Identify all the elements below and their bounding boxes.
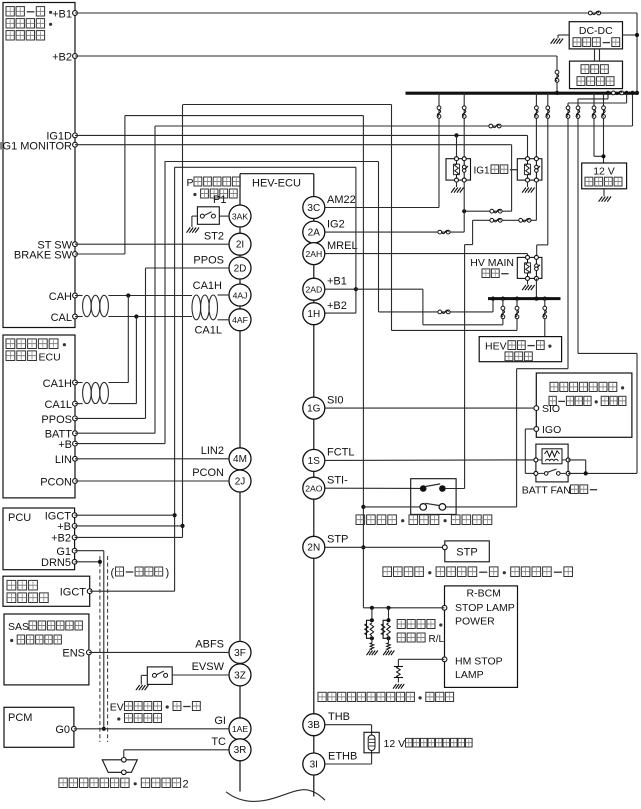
connector drop464 xyxy=(462,106,466,110)
svg-text:+B: +B xyxy=(58,439,72,451)
svg-text:12 V: 12 V xyxy=(593,166,615,178)
label HV battery upper xyxy=(581,65,589,74)
chain182 top xyxy=(183,104,392,106)
svg-text:3F: 3F xyxy=(234,648,246,659)
junction bus1 c xyxy=(630,91,634,95)
pin IGO fan xyxy=(534,427,539,432)
wire line2 drop xyxy=(472,220,474,244)
svg-text:SIO: SIO xyxy=(542,403,560,415)
wire HM stop lamp xyxy=(398,658,444,660)
svg-text:CA1L: CA1L xyxy=(44,399,72,411)
drop 464 relay1 xyxy=(463,93,465,159)
junction DC-DC riser xyxy=(635,33,639,37)
wire HV coil ground xyxy=(527,280,529,284)
junction brake-STP xyxy=(361,545,365,549)
connector drop439 xyxy=(437,106,441,110)
wire fan relay coil return xyxy=(568,459,586,461)
svg-text:POWER: POWER xyxy=(455,616,495,628)
connector on +B2 riser xyxy=(555,70,559,74)
svg-text:THB: THB xyxy=(328,711,350,723)
mini feeder b xyxy=(626,93,628,103)
relay2 switch xyxy=(534,157,538,161)
wire +B2 1H xyxy=(325,312,356,314)
pin STP box xyxy=(442,545,447,550)
wire chain464 low xyxy=(464,245,466,489)
junction bus1 a xyxy=(606,91,610,95)
svg-text:PPOS: PPOS xyxy=(41,414,72,426)
connector 2D xyxy=(229,257,251,279)
connector 2J xyxy=(229,470,251,492)
svg-text:STP: STP xyxy=(456,547,477,559)
svg-text:STI-: STI- xyxy=(327,475,348,487)
svg-text:2J: 2J xyxy=(235,476,246,487)
svg-text:PCM: PCM xyxy=(8,712,32,724)
junction 12V feed xyxy=(601,154,605,158)
DC-DC converter box xyxy=(569,22,622,49)
pin CAL xyxy=(73,314,78,319)
chain391 down xyxy=(391,105,393,331)
wire CA1H parklock stub xyxy=(75,382,83,384)
connector drop536 xyxy=(535,106,539,110)
pin stop lamp power xyxy=(442,605,447,610)
label skid control computer xyxy=(383,567,392,577)
IG1 relay 1 box xyxy=(446,159,471,180)
wire IGCT PCU xyxy=(75,514,175,516)
svg-text:DRN5: DRN5 xyxy=(41,557,71,569)
junction CAL xyxy=(134,314,138,318)
twisted pair 2 xyxy=(192,295,201,320)
svg-text:SAS: SAS xyxy=(8,621,29,633)
svg-text:2I: 2I xyxy=(236,240,244,251)
pin +B2 PCU xyxy=(72,535,77,540)
wire FCTL xyxy=(325,459,534,462)
pin G1 PCU xyxy=(72,548,77,553)
P position switch P1 xyxy=(197,207,219,225)
IG1 relay 2 box xyxy=(517,159,542,180)
connector 2A xyxy=(303,221,325,243)
wire stop lamp power xyxy=(363,607,444,609)
junction DRN5 shield xyxy=(98,560,102,564)
relay1 switch xyxy=(462,157,466,161)
wire +B1 chain down xyxy=(422,289,424,325)
wire 548 jog xyxy=(537,244,548,246)
label parking lock ECU xyxy=(6,339,15,349)
PCU box xyxy=(3,508,75,570)
pin +B1 xyxy=(73,11,78,16)
pin DRN5 PCU xyxy=(72,559,77,564)
svg-text:(: ( xyxy=(111,567,115,579)
svg-text:CA1L: CA1L xyxy=(194,325,222,337)
chain165 top xyxy=(165,161,379,163)
connector on bus1 xyxy=(612,91,616,95)
connector 2AD xyxy=(303,278,325,300)
pin IG1 MONITOR xyxy=(73,142,78,147)
svg-text:AM22: AM22 xyxy=(327,194,356,206)
wire 12V ground xyxy=(603,189,605,196)
pin BATT parklock xyxy=(73,431,78,436)
svg-text:P: P xyxy=(187,177,194,189)
junction IG1D relay1 xyxy=(454,133,458,137)
svg-text:R/L: R/L xyxy=(429,634,445,645)
pin IGCT PCU xyxy=(72,513,77,518)
wire SI0 xyxy=(325,407,534,409)
wire CAL drop xyxy=(135,317,137,404)
svg-text:STOP LAMP: STOP LAMP xyxy=(455,602,515,614)
svg-text:EVSW: EVSW xyxy=(192,661,225,673)
wire IG2 xyxy=(325,231,464,233)
wire +B2 riser xyxy=(556,56,558,93)
svg-text:1G: 1G xyxy=(307,404,321,415)
wire lamp R drop xyxy=(371,608,373,621)
drop 439 AM22 xyxy=(438,93,440,208)
connector 2AO xyxy=(303,477,325,499)
chain174 down xyxy=(174,167,176,591)
thermistor xyxy=(368,735,375,751)
battery temp sensor box xyxy=(364,732,379,753)
svg-text:SI0: SI0 xyxy=(327,395,344,407)
chain378 down xyxy=(378,162,380,312)
ground P1 xyxy=(187,228,191,233)
bus2 xyxy=(488,297,561,300)
wire line2 xyxy=(473,219,537,221)
fan relay coil xyxy=(534,458,538,462)
wire CA1L parklock stub xyxy=(75,403,83,405)
svg-text:HV MAIN: HV MAIN xyxy=(470,257,514,269)
svg-text:+B1: +B1 xyxy=(52,9,72,21)
stop lamp R xyxy=(370,618,374,622)
wire CAL mid xyxy=(108,316,192,318)
wire P1 to ground xyxy=(192,215,198,217)
svg-text:IG1: IG1 xyxy=(474,166,491,177)
svg-text:ECU: ECU xyxy=(39,352,61,364)
wire 568 to switch chain xyxy=(517,368,568,370)
ground stop lamp L xyxy=(383,651,386,656)
drop 568 xyxy=(567,103,569,369)
wire stop switch lower right xyxy=(446,506,517,508)
svg-text:P1: P1 xyxy=(213,194,226,206)
wire G0 to 1AE xyxy=(74,728,229,730)
connector 3B xyxy=(303,714,325,736)
svg-text:): ) xyxy=(166,567,170,579)
junction bus2 riser xyxy=(491,297,495,301)
HEV water pump box xyxy=(479,337,561,362)
wire lineA riser xyxy=(632,93,634,126)
connector on IG2 xyxy=(438,230,442,234)
connector 3AK xyxy=(229,205,251,227)
wire relay2 out xyxy=(535,180,537,220)
connector on 378 wire xyxy=(438,310,442,314)
connector 3C xyxy=(303,197,325,219)
connector 1G xyxy=(303,397,325,419)
wire +B1 right riser xyxy=(636,13,638,93)
svg-text:3AK: 3AK xyxy=(232,211,249,221)
svg-text:2: 2 xyxy=(183,779,189,791)
svg-text:HM STOP: HM STOP xyxy=(455,656,503,668)
wire G1 shielded xyxy=(75,550,104,552)
pin IGCT HV battery xyxy=(87,589,92,594)
connector 3R xyxy=(229,739,251,761)
svg-text:BATT FAN: BATT FAN xyxy=(522,485,571,497)
junction bus1 +B2 xyxy=(555,91,559,95)
connector line2 a xyxy=(490,218,494,222)
svg-text:TC: TC xyxy=(211,736,226,748)
connector tap1 xyxy=(501,306,505,310)
ground relay1 xyxy=(451,188,455,193)
connector 1S xyxy=(303,449,325,471)
fan relay switch xyxy=(534,471,538,475)
svg-text:ABFS: ABFS xyxy=(195,639,224,651)
svg-text:CA1H: CA1H xyxy=(193,280,222,292)
BATT FAN relay box xyxy=(536,444,568,482)
junction bus2 pump xyxy=(543,297,547,301)
wire IG1D to relay2 coil xyxy=(527,135,529,158)
wire ENS to 3F xyxy=(89,651,229,653)
svg-text:2AO: 2AO xyxy=(305,484,323,494)
svg-text:EV: EV xyxy=(110,702,124,714)
drop 578 xyxy=(577,99,579,354)
wire IGO xyxy=(525,428,534,430)
wire DC-DC to +B1 riser xyxy=(623,34,638,36)
svg-text:PPOS: PPOS xyxy=(193,255,224,267)
svg-text:+B2: +B2 xyxy=(52,52,72,64)
svg-text:IGO: IGO xyxy=(542,424,561,436)
svg-text:3I: 3I xyxy=(310,759,318,770)
wire 378 to bus2 xyxy=(379,311,494,313)
wire THB xyxy=(325,724,372,726)
connector 4AJ xyxy=(229,284,251,306)
ground DC-DC xyxy=(551,39,555,44)
ground EV switch xyxy=(136,685,140,690)
wire CAH drop xyxy=(127,296,129,383)
pin BRAKE SW xyxy=(73,252,78,257)
svg-text:ETHB: ETHB xyxy=(328,751,357,763)
connector 2AH xyxy=(303,243,325,265)
label HV battery lower xyxy=(7,580,16,590)
svg-text:MREL: MREL xyxy=(327,240,358,252)
shield dashed lines xyxy=(99,556,101,742)
wire BATT riser xyxy=(75,432,155,434)
label start-stop unit xyxy=(6,7,14,16)
svg-text:2N: 2N xyxy=(307,543,320,554)
svg-text:12 V: 12 V xyxy=(384,738,406,750)
junction brake-stop switch xyxy=(361,505,365,509)
label stop light RL xyxy=(397,620,405,629)
junction lamp R xyxy=(370,606,374,610)
SAS control module box xyxy=(4,614,89,685)
connector drop604 xyxy=(602,106,606,110)
connector drop568 xyxy=(566,106,570,110)
12V battery box xyxy=(582,163,627,189)
svg-text:1AE: 1AE xyxy=(232,724,249,734)
wire LIN to 4M xyxy=(75,458,229,460)
pin CAH xyxy=(73,293,78,298)
pin +B parklock xyxy=(73,441,78,446)
pin PPOS parklock xyxy=(73,416,78,421)
svg-text:CAL: CAL xyxy=(51,312,72,324)
svg-text:FCTL: FCTL xyxy=(327,447,355,459)
pin HM stop lamp xyxy=(442,657,447,662)
svg-text:3C: 3C xyxy=(307,203,320,214)
pin ENS SAS xyxy=(87,650,92,655)
svg-text:+B1: +B1 xyxy=(327,276,347,288)
connector 3F xyxy=(229,641,251,663)
drop 536 relay2 xyxy=(535,93,537,159)
svg-text:3B: 3B xyxy=(308,720,321,731)
junction fan relay xyxy=(584,471,588,475)
wire relay1 out xyxy=(463,180,465,232)
label diagnosis connector 2 xyxy=(59,778,67,787)
svg-text:CA1H: CA1H xyxy=(43,378,72,390)
wire to 4AJ xyxy=(218,294,230,296)
wire +B PCU xyxy=(75,525,183,527)
svg-text:+B: +B xyxy=(57,521,71,533)
wire stop switch upper out xyxy=(446,488,465,490)
HEV-ECU box xyxy=(240,173,314,175)
HV cable pair xyxy=(594,49,596,61)
wire P1 to 3AK xyxy=(219,215,229,217)
connector on MONITOR link xyxy=(490,209,494,213)
connector 4AF xyxy=(229,309,251,331)
svg-text:GI: GI xyxy=(214,715,226,727)
connector drop594 xyxy=(592,106,596,110)
stop lamp L xyxy=(387,618,391,622)
mini feeder a xyxy=(607,93,609,99)
twisted pair 3 xyxy=(83,382,92,403)
ground HV relay xyxy=(522,285,526,290)
svg-text:BRAKE SW: BRAKE SW xyxy=(14,249,73,261)
pin LIN parklock xyxy=(73,456,78,461)
drop bus2 tap2 xyxy=(516,299,518,331)
connector 1AE xyxy=(229,718,251,740)
twisted pair 1 xyxy=(83,295,92,316)
connector pump drop xyxy=(543,306,547,310)
junction bus1 b xyxy=(625,91,629,95)
wire MONITOR riser xyxy=(511,145,513,212)
wire to 4AF xyxy=(218,319,230,321)
junction lamp L xyxy=(386,606,390,610)
EV drive mode switch xyxy=(147,667,172,685)
svg-text:PCU: PCU xyxy=(8,512,31,524)
wire IG1D xyxy=(75,134,528,136)
pin ST SW xyxy=(73,242,78,247)
pin G0 PCM xyxy=(72,726,77,731)
wire IG1D to relay1 coil xyxy=(456,135,458,158)
drop bus2 tap1 xyxy=(502,299,504,325)
wire DC-DC ground stub xyxy=(558,34,569,36)
wire chain391 to bus2 tap xyxy=(391,329,517,331)
wire IG1 MONITOR xyxy=(75,144,512,146)
drop bus2 pump xyxy=(544,299,546,337)
connector drop548 xyxy=(546,106,550,110)
svg-text:LIN2: LIN2 xyxy=(201,445,224,457)
svg-text:1H: 1H xyxy=(307,309,320,320)
wire CAH mid xyxy=(108,295,192,297)
wire MREL xyxy=(325,253,528,255)
connector 2N xyxy=(303,536,325,558)
svg-text:LIN: LIN xyxy=(55,454,72,466)
chain356 down xyxy=(355,167,357,313)
pin +B PCU xyxy=(72,524,77,529)
connector 4M xyxy=(229,448,251,470)
start-stop unit box xyxy=(3,3,75,328)
HV MAIN relay box xyxy=(517,257,542,278)
svg-text:+B2: +B2 xyxy=(51,533,71,545)
drop 594 12V xyxy=(593,93,595,156)
svg-text:HEV: HEV xyxy=(485,341,507,353)
wire +B1 top xyxy=(75,12,637,14)
svg-text:4AF: 4AF xyxy=(232,315,248,325)
connector tap2 xyxy=(515,306,519,310)
junction +B1 on chain356 xyxy=(354,287,358,291)
svg-text:4AJ: 4AJ xyxy=(233,290,248,300)
bus1 xyxy=(406,92,638,95)
svg-text:ST2: ST2 xyxy=(204,231,224,243)
wire PCON to 2J xyxy=(75,480,229,482)
stop light switch box xyxy=(411,479,456,515)
wire ST SW to 2I xyxy=(75,243,229,245)
svg-text:DC-DC: DC-DC xyxy=(579,25,613,37)
svg-text:PCON: PCON xyxy=(40,476,72,488)
svg-text:PCON: PCON xyxy=(192,467,224,479)
svg-text:IG2: IG2 xyxy=(327,219,345,231)
junction +B PCU xyxy=(180,524,184,528)
svg-text:2AH: 2AH xyxy=(305,249,322,259)
svg-text:3Z: 3Z xyxy=(234,670,246,681)
pin PCON parklock xyxy=(73,479,78,484)
wire +B2 startstop xyxy=(75,55,557,57)
pin IG1D xyxy=(73,133,78,138)
connector 3I xyxy=(303,753,325,775)
PCM box xyxy=(4,707,74,747)
pin CA1H parklock xyxy=(73,380,78,385)
connector on lineA xyxy=(489,124,493,128)
pin SIO fan xyxy=(534,406,539,411)
ground stop lamp R xyxy=(367,651,370,656)
svg-text:ENS: ENS xyxy=(62,648,85,660)
relay1 coil xyxy=(455,157,459,161)
wire stop switch lower left xyxy=(363,506,420,508)
wire TC to diag connector xyxy=(124,749,229,751)
junction relay1 output xyxy=(462,209,466,213)
junction G0 GI xyxy=(102,727,106,731)
wire bus2 riser xyxy=(492,299,494,312)
wire DRN5 to shield xyxy=(75,561,100,563)
wire brake chain down xyxy=(362,116,364,608)
STP box xyxy=(445,541,490,562)
wire AM22 xyxy=(325,207,439,209)
connector drop578 xyxy=(576,106,580,110)
junction bus2 tap2 xyxy=(515,297,519,301)
wire ETHB xyxy=(325,763,372,765)
parking lock ECU box xyxy=(3,335,75,498)
connector 2I xyxy=(229,233,251,255)
ground HM lamp xyxy=(393,684,396,689)
svg-text:3R: 3R xyxy=(234,745,247,756)
stop switch lower contacts xyxy=(420,504,427,511)
HV relay switch xyxy=(534,255,538,259)
junction bus2 tap1 xyxy=(501,297,505,301)
wire IGCT HVbatt xyxy=(90,590,175,592)
connector 1H xyxy=(303,303,325,325)
wire fan relay output xyxy=(568,472,637,474)
wire +B riser parklock xyxy=(75,443,165,445)
squiggle cut line xyxy=(226,790,325,802)
diagnosis connector 2 xyxy=(102,760,137,773)
pin CA1L parklock xyxy=(73,401,78,406)
connector on +B1 wire xyxy=(588,11,592,15)
HV relay coil xyxy=(526,255,530,259)
wire relay2 coil ground xyxy=(527,182,529,187)
